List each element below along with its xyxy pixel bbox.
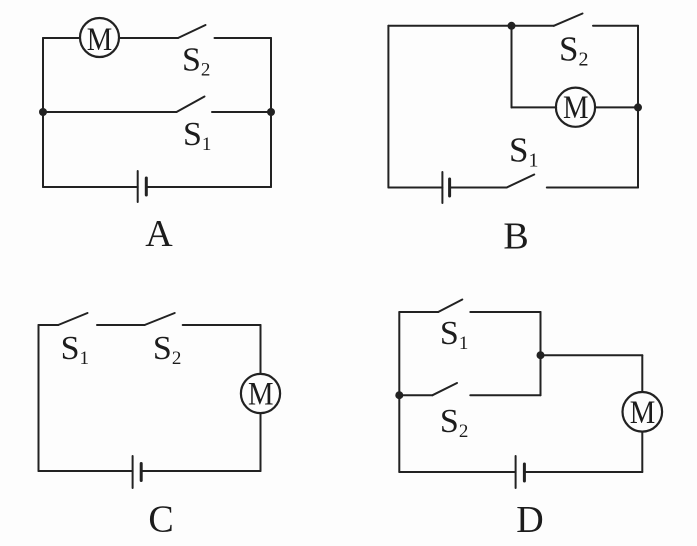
motor M (circuit B) bbox=[556, 88, 595, 127]
wire: B top wire left segment bbox=[388, 25, 553, 27]
wire: C top wire right segment bbox=[183, 324, 261, 326]
battery (circuit B) bbox=[442, 172, 449, 203]
wire: A middle wire left segment bbox=[43, 111, 177, 113]
wire: B bottom wire right segment (switch contact side) bbox=[547, 187, 638, 189]
wire: A middle wire right segment (switch contact side) bbox=[212, 111, 271, 113]
svg-text:S2: S2 bbox=[440, 403, 468, 442]
wire: D bottom wire right segment bbox=[524, 471, 642, 473]
switch S1 blade (circuit C) bbox=[58, 313, 87, 325]
svg-text:M: M bbox=[87, 22, 113, 58]
wire: D motor vertical lower segment bbox=[641, 432, 643, 472]
svg-text:M: M bbox=[563, 90, 589, 126]
wire: B right vertical bbox=[637, 26, 639, 188]
svg-text:S1: S1 bbox=[440, 315, 468, 354]
switch S2 blade (circuit B) bbox=[554, 14, 583, 26]
battery (circuit D) bbox=[516, 456, 525, 488]
switch S2 blade (circuit D) bbox=[433, 383, 458, 395]
wire: B bottom wire middle segment bbox=[450, 187, 507, 189]
battery (circuit C) bbox=[133, 456, 142, 488]
wire: A bottom wire right segment bbox=[146, 186, 271, 188]
switch S2 blade (circuit A) bbox=[178, 25, 206, 38]
wire: D node-to-motor horizontal bbox=[541, 354, 643, 356]
svg-text:S2: S2 bbox=[559, 30, 588, 71]
switch S1 blade (circuit A) bbox=[177, 97, 205, 113]
wire: C left vertical bbox=[38, 325, 40, 471]
wire: A top wire right segment (switch contact side) bbox=[215, 37, 272, 39]
wire: D motor vertical upper segment bbox=[641, 355, 643, 392]
svg-text:M: M bbox=[248, 377, 274, 413]
wire: C bottom wire left segment bbox=[39, 470, 133, 472]
wire: D middle branch left stub bbox=[399, 394, 432, 396]
wire: D branch-pair right vertical bbox=[540, 312, 542, 395]
wire: C bottom wire right segment bbox=[141, 470, 260, 472]
motor M (circuit C) bbox=[241, 374, 280, 413]
svg-text:S1: S1 bbox=[183, 116, 211, 155]
svg-text:S1: S1 bbox=[509, 131, 538, 172]
wire: D middle branch right segment bbox=[470, 394, 540, 396]
wire: C right vertical upper segment bbox=[260, 325, 262, 374]
wire: B motor branch right segment bbox=[595, 106, 638, 108]
wire: A top wire middle segment bbox=[119, 37, 178, 39]
switch S1 blade (circuit D) bbox=[438, 300, 462, 313]
svg-text:S1: S1 bbox=[61, 330, 89, 369]
motor M (circuit D) bbox=[623, 392, 663, 432]
battery (circuit A) bbox=[138, 171, 147, 202]
switch S2 blade (circuit C) bbox=[145, 313, 175, 325]
svg-text:M: M bbox=[630, 395, 656, 431]
wire: D top branch left stub bbox=[399, 311, 438, 313]
svg-text:A: A bbox=[145, 213, 173, 255]
wire: D left vertical bbox=[398, 312, 400, 472]
svg-text:S2: S2 bbox=[153, 330, 181, 369]
node: B top junction bbox=[508, 22, 516, 30]
wire: C right vertical lower segment bbox=[260, 413, 262, 471]
node: A right junction bbox=[267, 108, 275, 116]
wire: B left vertical bbox=[387, 26, 389, 188]
wire: A right vertical bbox=[270, 38, 272, 187]
node: D left junction bbox=[395, 391, 403, 399]
wire: B motor branch vertical drop bbox=[511, 26, 513, 108]
wire: A left vertical bbox=[42, 38, 44, 187]
svg-text:C: C bbox=[148, 498, 173, 540]
svg-text:D: D bbox=[516, 499, 543, 541]
node: B right junction bbox=[634, 103, 642, 111]
motor M (circuit A) bbox=[80, 18, 119, 58]
wire: C top wire left stub bbox=[39, 324, 59, 326]
wire: B top wire right segment (switch contact side) bbox=[593, 25, 638, 27]
wire: D bottom wire left segment bbox=[399, 471, 515, 473]
wire: B bottom wire left segment bbox=[388, 187, 442, 189]
wire: A top wire left segment bbox=[43, 37, 80, 39]
wire: C top wire middle segment bbox=[97, 324, 145, 326]
wire: D top branch right segment bbox=[470, 311, 540, 313]
node: A left junction bbox=[39, 108, 47, 116]
switch S1 blade (circuit B) bbox=[507, 175, 535, 188]
wire: B motor branch left segment bbox=[512, 106, 557, 108]
svg-text:S2: S2 bbox=[182, 42, 210, 81]
wire: A bottom wire left segment bbox=[43, 186, 138, 188]
node: D right branch junction bbox=[537, 351, 545, 359]
svg-text:B: B bbox=[503, 215, 528, 257]
